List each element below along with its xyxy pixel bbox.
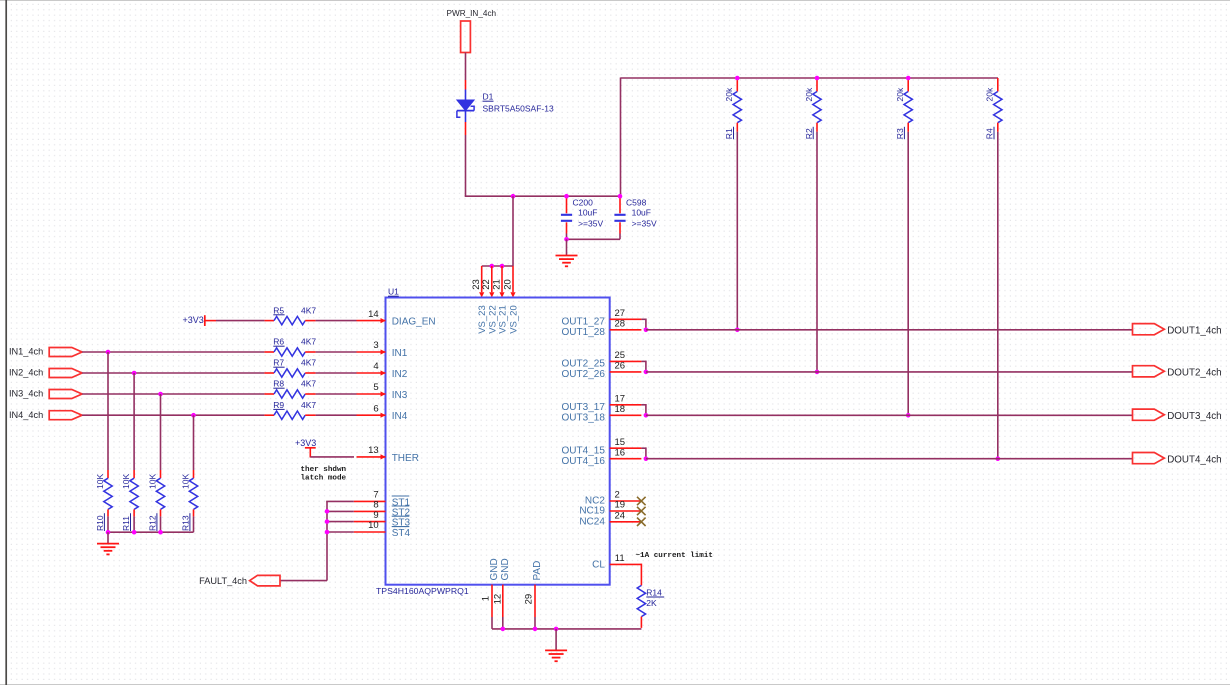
junction ST bus — [325, 509, 330, 534]
svg-text:IN4: IN4 — [392, 411, 408, 422]
svg-text:4K7: 4K7 — [301, 379, 316, 389]
junction R1 bottom — [735, 328, 740, 333]
resistor R8 4K7 — [264, 379, 316, 398]
wire pulldown bus — [108, 531, 194, 533]
svg-text:IN2_4ch: IN2_4ch — [9, 368, 43, 378]
svg-text:OUT3_17: OUT3_17 — [562, 402, 606, 413]
port DOUT1_4ch — [1133, 324, 1222, 337]
junction DOUT2_4ch — [644, 370, 649, 375]
label GND 1 — [489, 558, 500, 580]
svg-text:IN3: IN3 — [392, 390, 408, 401]
svg-text:20k: 20k — [985, 87, 995, 101]
svg-text:IN2: IN2 — [392, 369, 408, 380]
port DOUT2_4ch — [1133, 366, 1222, 379]
resistor R1 20k — [724, 78, 741, 139]
port DOUT3_4ch — [1133, 409, 1222, 422]
resistor R10 10K — [95, 470, 112, 531]
resistor R4 20k — [985, 78, 1002, 139]
wire IN1_4ch — [82, 351, 264, 353]
wire join DOUT2_4ch — [641, 361, 646, 372]
wire join DOUT1_4ch — [641, 319, 646, 330]
pin 29 PAD — [524, 585, 535, 617]
svg-text:10K: 10K — [95, 474, 105, 489]
wire R7 to pin — [316, 372, 357, 374]
svg-text:27: 27 — [615, 308, 626, 319]
resistor R6 4K7 — [264, 337, 316, 356]
label CL — [592, 560, 605, 571]
label VS_22 — [487, 305, 498, 334]
svg-text:THER: THER — [392, 453, 419, 464]
junction DOUT3_4ch — [644, 413, 649, 418]
label OUT3_18 — [562, 413, 606, 424]
svg-text:R3: R3 — [895, 128, 905, 139]
pin D1 anode — [465, 80, 467, 90]
svg-text:~1A current limit: ~1A current limit — [636, 552, 713, 560]
pin VS 23 — [471, 266, 484, 298]
svg-text:C598: C598 — [626, 197, 647, 207]
label IN2 — [392, 369, 408, 380]
svg-text:4K7: 4K7 — [301, 305, 316, 315]
svg-text:4: 4 — [373, 361, 378, 372]
wire R2 to DOUT — [816, 132, 818, 372]
no-connect X NC2 — [637, 497, 646, 505]
svg-text:OUT3_18: OUT3_18 — [562, 413, 606, 424]
svg-text:4K7: 4K7 — [301, 358, 316, 368]
diode D1 — [457, 90, 474, 123]
svg-text:18: 18 — [615, 404, 626, 415]
svg-text:FAULT_4ch: FAULT_4ch — [199, 576, 247, 586]
svg-text:SBRT5A50SAF-13: SBRT5A50SAF-13 — [483, 104, 554, 114]
label OUT1_27 — [562, 317, 606, 328]
ground main — [545, 629, 567, 661]
label OUT4_15 — [562, 446, 606, 457]
overbar ST — [392, 515, 410, 517]
wire R3 to DOUT — [907, 132, 909, 416]
wire DOUT2_4ch — [646, 371, 1133, 373]
wire 3V3 to R5 — [216, 320, 264, 322]
svg-text:+3V3: +3V3 — [183, 315, 204, 325]
resistor R12 10K — [148, 470, 165, 531]
svg-text:CL: CL — [592, 560, 605, 571]
wire D1 to VS node — [465, 135, 621, 196]
svg-text:GND: GND — [500, 558, 511, 580]
wire VS top rail — [621, 77, 999, 79]
resistor R5 4K7 — [264, 305, 316, 325]
pin 6 IN4 — [357, 403, 386, 417]
pin 12 GND — [493, 585, 504, 617]
svg-text:>=35V: >=35V — [578, 219, 603, 229]
junction IN4_4ch — [191, 413, 196, 418]
svg-text:13: 13 — [368, 445, 379, 456]
svg-text:15: 15 — [615, 437, 626, 448]
svg-text:16: 16 — [615, 447, 626, 458]
svg-text:19: 19 — [615, 500, 626, 511]
svg-text:25: 25 — [615, 350, 626, 361]
op-amp U1 TPS4H160AQPWPRQ1 body — [386, 298, 610, 585]
wire R12 bottom — [160, 516, 162, 532]
junction IN3_4ch — [158, 392, 163, 397]
junction VS pins — [490, 264, 505, 269]
label IN1 — [392, 348, 408, 359]
label ST4 — [392, 528, 411, 539]
label OUT4_16 — [562, 456, 606, 467]
svg-text:U1: U1 — [388, 287, 399, 297]
wire R6 to pin — [316, 351, 357, 353]
label PAD — [532, 561, 543, 581]
label OUT2_25 — [562, 359, 606, 370]
overbar ST — [392, 505, 410, 507]
label OUT2_26 — [562, 369, 606, 380]
junction pulldown — [106, 530, 163, 535]
wire DOUT4_4ch — [646, 458, 1133, 460]
resistor R2 20k — [804, 78, 821, 139]
svg-text:28: 28 — [615, 319, 626, 330]
svg-text:20k: 20k — [804, 87, 814, 101]
wire DOUT3_4ch — [646, 414, 1133, 416]
svg-text:DOUT3_4ch: DOUT3_4ch — [1167, 411, 1221, 422]
svg-text:4K7: 4K7 — [301, 337, 316, 347]
svg-text:OUT1_27: OUT1_27 — [562, 317, 606, 328]
port IN2_4ch — [9, 368, 82, 378]
svg-text:>=35V: >=35V — [632, 219, 657, 229]
pin 3 IN1 — [357, 340, 386, 354]
svg-text:NC19: NC19 — [579, 506, 605, 517]
pin VS 20 — [502, 266, 515, 298]
svg-text:NC24: NC24 — [579, 516, 605, 527]
svg-text:IN1_4ch: IN1_4ch — [9, 347, 43, 357]
wire R8 to pin — [316, 393, 357, 395]
port PWR_IN_4ch — [447, 9, 497, 52]
wire R9 to pin — [316, 414, 357, 416]
no-connect X NC19 — [637, 507, 646, 515]
svg-text:D1: D1 — [483, 92, 494, 102]
svg-text:20: 20 — [502, 279, 513, 290]
svg-text:26: 26 — [615, 361, 626, 372]
label D1 — [483, 92, 554, 114]
wire R5 to pin — [316, 320, 357, 322]
port DOUT4_4ch — [1133, 453, 1222, 466]
label DIAG_EN — [392, 317, 436, 328]
wire R11 bottom — [133, 516, 135, 532]
wire R10 drop — [107, 352, 109, 470]
svg-text:10K: 10K — [148, 474, 158, 489]
pin 4 IN2 — [357, 361, 386, 375]
wire R4 to DOUT — [997, 132, 999, 459]
pin 13 THER — [357, 445, 386, 459]
label U1 part number — [376, 586, 469, 596]
label VS_23 — [477, 305, 488, 334]
junction top rail — [815, 76, 820, 81]
label IN4 — [392, 411, 408, 422]
capacitor C598 10uF — [614, 196, 625, 233]
pin 24 NC24 — [610, 511, 642, 522]
resistor R13 10K — [181, 470, 198, 531]
label ST2 — [392, 507, 411, 518]
label OUT3_17 — [562, 402, 606, 413]
svg-text:GND: GND — [489, 558, 500, 580]
junction R2 bottom — [815, 370, 820, 375]
resistor R14 2K — [637, 564, 664, 628]
note current limit — [636, 552, 713, 560]
svg-text:20k: 20k — [895, 87, 905, 101]
wire join DOUT4_4ch — [641, 447, 646, 458]
pin 14 DIAG_EN — [357, 309, 386, 323]
svg-text:10K: 10K — [121, 474, 131, 489]
svg-text:+3V3: +3V3 — [295, 438, 316, 448]
junction R4 bottom — [996, 456, 1001, 461]
pin 18 OUT3_18 — [610, 404, 642, 415]
label NC24 — [579, 516, 605, 527]
svg-text:R6: R6 — [273, 337, 284, 347]
svg-text:VS_21: VS_21 — [498, 305, 509, 334]
port IN1_4ch — [9, 347, 82, 357]
wire R13 drop — [193, 415, 195, 470]
svg-text:DOUT2_4ch: DOUT2_4ch — [1167, 368, 1221, 379]
wire R10 bottom — [107, 516, 109, 532]
svg-text:R2: R2 — [804, 128, 814, 139]
svg-text:TPS4H160AQPWPRQ1: TPS4H160AQPWPRQ1 — [376, 586, 469, 596]
svg-text:ther shdwn: ther shdwn — [301, 466, 347, 474]
svg-text:R9: R9 — [273, 400, 284, 410]
resistor R11 10K — [121, 470, 138, 531]
pin 10 ST4 — [354, 520, 386, 532]
svg-text:OUT1_28: OUT1_28 — [562, 327, 606, 338]
label OUT1_28 — [562, 327, 606, 338]
pin 17 OUT3_17 — [610, 394, 642, 405]
wire IN4_4ch — [82, 414, 264, 416]
svg-text:R8: R8 — [273, 379, 284, 389]
ground pulldowns — [97, 532, 119, 554]
svg-text:PAD: PAD — [532, 561, 543, 581]
pin 7 ST1 — [354, 490, 386, 502]
svg-text:IN3_4ch: IN3_4ch — [9, 389, 43, 399]
power +3V3 THER — [295, 438, 316, 458]
svg-text:R10: R10 — [95, 515, 105, 531]
pin 19 NC19 — [610, 500, 642, 511]
svg-text:24: 24 — [615, 511, 626, 522]
pin 1 GND — [481, 585, 492, 617]
label NC2 — [585, 496, 605, 507]
svg-text:R1: R1 — [724, 128, 734, 139]
wire to FAULT — [280, 580, 327, 582]
svg-text:11: 11 — [615, 553, 625, 564]
wire ST bus — [326, 501, 354, 580]
svg-text:IN1: IN1 — [392, 348, 408, 359]
wire IN3_4ch — [82, 393, 264, 395]
svg-text:R13: R13 — [181, 515, 191, 531]
overbar ST — [392, 495, 410, 497]
overbar ST — [392, 526, 410, 528]
svg-text:10: 10 — [368, 520, 379, 531]
svg-text:5: 5 — [373, 382, 378, 393]
label NC19 — [579, 506, 605, 517]
svg-text:OUT2_25: OUT2_25 — [562, 359, 606, 370]
svg-text:DIAG_EN: DIAG_EN — [392, 317, 436, 328]
pin 16 OUT4_16 — [610, 447, 642, 458]
svg-text:VS_20: VS_20 — [509, 305, 520, 334]
junction IN1_4ch — [106, 350, 111, 355]
svg-text:C200: C200 — [573, 197, 594, 207]
svg-text:OUT4_15: OUT4_15 — [562, 446, 606, 457]
ground caps — [556, 239, 578, 266]
wire R1 to DOUT — [736, 132, 738, 330]
svg-text:9: 9 — [373, 510, 378, 521]
pin 11 CL — [610, 553, 642, 564]
label VS_20 — [509, 305, 520, 334]
junction caps — [511, 194, 623, 242]
label C200 — [573, 197, 604, 228]
pin VS 21 — [491, 266, 504, 298]
svg-text:3: 3 — [373, 340, 378, 351]
capacitor C200 10uF — [561, 196, 572, 233]
svg-text:OUT2_26: OUT2_26 — [562, 369, 606, 380]
svg-text:4K7: 4K7 — [301, 400, 316, 410]
pin 26 OUT2_26 — [610, 361, 642, 372]
svg-text:10K: 10K — [181, 474, 191, 489]
label ST1 — [392, 497, 411, 508]
junction top rail — [906, 76, 911, 81]
svg-text:R12: R12 — [148, 515, 158, 531]
pin 15 OUT4_15 — [610, 437, 642, 448]
junction ground bus — [501, 627, 559, 632]
port IN3_4ch — [9, 389, 82, 399]
resistor R7 4K7 — [264, 358, 316, 377]
svg-text:17: 17 — [615, 394, 626, 405]
label U1 — [388, 287, 399, 297]
pin 28 OUT1_28 — [610, 319, 642, 330]
wire 3V3 to THER — [310, 456, 354, 458]
pin 5 IN3 — [357, 382, 386, 396]
pin 9 ST3 — [354, 510, 386, 522]
pin 8 ST2 — [354, 500, 386, 512]
wire IN2_4ch — [82, 372, 264, 374]
svg-text:20k: 20k — [724, 87, 734, 101]
label IN3 — [392, 390, 408, 401]
label ST3 — [392, 518, 411, 529]
svg-text:R5: R5 — [273, 305, 284, 315]
pin D1 cathode — [465, 122, 467, 135]
junction R3 bottom — [906, 413, 911, 418]
port FAULT_4ch — [199, 575, 280, 586]
svg-text:12: 12 — [493, 594, 504, 605]
svg-text:6: 6 — [373, 403, 378, 414]
label THER — [392, 453, 419, 464]
svg-text:IN4_4ch: IN4_4ch — [9, 410, 43, 420]
svg-text:2K: 2K — [646, 598, 657, 608]
pin 2 NC2 — [610, 490, 642, 501]
svg-text:DOUT4_4ch: DOUT4_4ch — [1167, 454, 1221, 465]
svg-text:PWR_IN_4ch: PWR_IN_4ch — [447, 9, 497, 18]
pin VS 22 — [481, 266, 494, 298]
wire R12 drop — [160, 394, 162, 470]
pin 25 OUT2_25 — [610, 350, 642, 361]
resistor R3 20k — [895, 78, 912, 139]
power +3V3 DIAG — [183, 315, 217, 326]
wire join DOUT3_4ch — [641, 404, 646, 415]
wire R13 bottom — [193, 516, 195, 532]
svg-text:1: 1 — [481, 596, 492, 601]
svg-text:R14: R14 — [646, 587, 662, 597]
port IN4_4ch — [9, 410, 82, 420]
junction top rail — [735, 76, 740, 81]
svg-text:10uF: 10uF — [632, 208, 651, 218]
svg-text:14: 14 — [368, 309, 379, 320]
junction IN2_4ch — [132, 371, 137, 376]
svg-text:R4: R4 — [985, 128, 995, 139]
no-connect X NC24 — [637, 518, 646, 526]
svg-text:OUT4_16: OUT4_16 — [562, 456, 606, 467]
wire caps bottom — [566, 234, 620, 240]
label C598 — [626, 197, 657, 228]
svg-text:latch mode: latch mode — [301, 474, 347, 482]
svg-text:R11: R11 — [121, 516, 131, 531]
wire R11 drop — [133, 373, 135, 470]
wire DOUT1_4ch — [646, 329, 1133, 331]
svg-text:DOUT1_4ch: DOUT1_4ch — [1167, 325, 1221, 336]
svg-text:29: 29 — [524, 594, 535, 605]
svg-text:ST4: ST4 — [392, 528, 411, 539]
svg-text:R7: R7 — [273, 358, 284, 368]
junction DOUT4_4ch — [644, 456, 649, 461]
svg-text:21: 21 — [491, 279, 502, 290]
svg-text:10uF: 10uF — [578, 208, 597, 218]
wire ground bus — [492, 617, 641, 629]
label VS_21 — [498, 305, 509, 334]
label GND 12 — [500, 558, 511, 580]
junction DOUT1_4ch — [644, 328, 649, 333]
wire VS riser — [620, 78, 622, 197]
wire PWR_IN to D1 — [465, 53, 467, 81]
resistor R9 4K7 — [264, 400, 316, 420]
pin 27 OUT1_27 — [610, 308, 642, 319]
wire VS branch — [482, 196, 513, 266]
note ther shdwn — [301, 466, 347, 482]
